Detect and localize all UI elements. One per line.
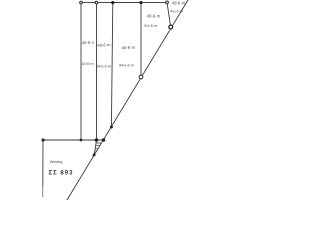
svg-text:44¾·6·m: 44¾·6·m: [96, 65, 111, 69]
svg-text:Weideg: Weideg: [50, 160, 63, 164]
node ring marker top-left: [80, 1, 83, 4]
hatch lines in wedge: [95, 143, 101, 151]
node dot bottom v2: [95, 138, 99, 142]
svg-text:49·6·m: 49·6·m: [172, 1, 186, 6]
wire bottom-left vertical boundary: [42, 140, 44, 186]
node ring on diagonal mid: [139, 75, 143, 79]
svg-text:49·6·m: 49·6·m: [97, 42, 111, 48]
wire vertical boundary 4: [140, 3, 142, 77]
node square corner bottom-left: [42, 139, 45, 142]
wire vertical boundary 2: [96, 3, 98, 140]
svg-text:ΣΣ 893: ΣΣ 893: [49, 171, 74, 177]
svg-text:4¾·6·m: 4¾·6·m: [170, 10, 183, 14]
node ring marker top-right: [166, 1, 169, 4]
node dot marker top v4: [139, 1, 142, 4]
node square on diagonal wedge apex: [93, 153, 96, 156]
node dot bottom v1: [80, 139, 83, 142]
wire wedge left line: [94, 140, 96, 155]
node dot marker top v3: [111, 1, 114, 4]
wire vertical boundary 1: [80, 3, 82, 140]
wire short slant boundary top-right: [167, 2, 171, 27]
node dot bottom diagonal: [102, 138, 106, 142]
wire vertical boundary 3: [111, 3, 112, 127]
wire bottom horizontal boundary: [43, 139, 104, 141]
svg-text:49·6·o: 49·6·o: [82, 40, 95, 46]
svg-text:44·6·m: 44·6·m: [81, 62, 93, 66]
wire main diagonal road line: [67, 0, 188, 200]
svg-text:4¾·6·m: 4¾·6·m: [144, 23, 158, 28]
wire top boundary line: [81, 1, 167, 3]
node dot on diagonal low: [110, 126, 113, 129]
node big ring on diagonal: [169, 25, 173, 29]
svg-text:44¾·6·m: 44¾·6·m: [119, 64, 134, 68]
node ring marker top v2: [95, 1, 98, 4]
svg-text:49·6·m: 49·6·m: [147, 14, 161, 19]
svg-text:49·6·m: 49·6·m: [122, 45, 136, 51]
wire bottom-left vertical boundary faded end: [42, 186, 44, 197]
